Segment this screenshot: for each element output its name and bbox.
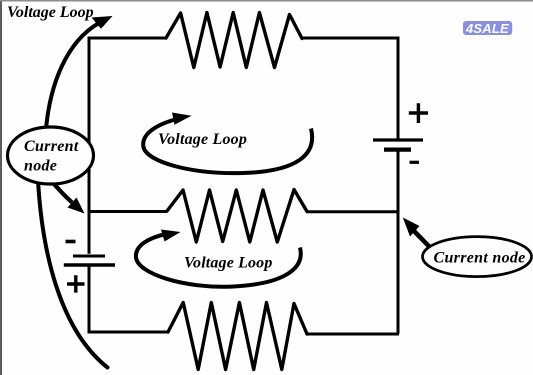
wire: top lead right + right wire upper — [302, 38, 398, 139]
node: current node ellipse (right) — [423, 237, 532, 277]
battery B1 plus label — [67, 275, 85, 292]
battery B1 minus label — [66, 240, 76, 244]
arrow: left current-node pointer (shaft) — [54, 184, 72, 203]
arrow: voltage loop arc (upper middle) — [143, 119, 312, 173]
battery B2 (right) long positive plate — [373, 138, 423, 141]
svg-text:Voltage Loop: Voltage Loop — [184, 255, 272, 272]
svg-text:node: node — [24, 157, 57, 174]
resistor R3 (bottom) — [168, 303, 307, 370]
frame top edge — [0, 0, 533, 2]
battery B2 (right) short negative plate — [384, 148, 411, 152]
svg-text:Current: Current — [24, 138, 79, 155]
arrow: voltage loop arc upper (head) — [172, 113, 192, 125]
resistor R1 (top) — [166, 13, 302, 68]
svg-text:Voltage Loop: Voltage Loop — [158, 131, 247, 148]
wire: top lead left + left wire upper — [89, 38, 166, 254]
arrow: right current-node pointer (head) — [403, 218, 420, 237]
arrow: left current-node pointer (head) — [68, 198, 85, 214]
battery B1 (left) long positive plate — [64, 263, 115, 266]
battery B2 plus label — [409, 103, 428, 123]
arrow: voltage-loop arrow top-left (head) — [92, 16, 113, 29]
svg-text:Voltage Loop: Voltage Loop — [7, 4, 94, 21]
svg-text:Current node: Current node — [434, 249, 526, 266]
wire: middle wire left lead — [89, 210, 167, 213]
arrow: voltage loop arc (lower middle) — [136, 234, 301, 287]
resistor R2 (middle) — [167, 190, 307, 243]
wire: bottom lead right — [307, 333, 399, 336]
battery B2 minus label — [410, 161, 420, 164]
logo: 4SALE badge — [463, 21, 512, 35]
frame left edge — [0, 0, 2, 375]
arrow: right current-node pointer (shaft) — [414, 231, 430, 247]
wire: left wire lower + bottom lead left — [89, 267, 168, 333]
node: current node ellipse (left) — [8, 127, 94, 184]
wire: right wire lower — [397, 152, 400, 334]
svg-text:4SALE: 4SALE — [465, 21, 509, 36]
battery B1 (left) short negative plate — [73, 255, 105, 258]
arrow: voltage-loop arrow top-left (curve) — [46, 23, 99, 129]
arrow: voltage loop arc lower (head) — [161, 230, 181, 242]
arrow: current sweep curve far left (no head) — [38, 180, 108, 368]
wire: middle wire right lead — [307, 210, 398, 213]
